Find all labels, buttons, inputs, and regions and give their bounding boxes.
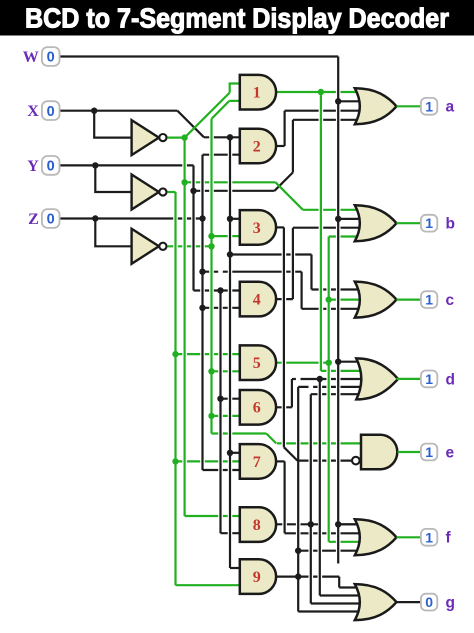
output pin f bbox=[421, 529, 437, 546]
output pin c bbox=[421, 291, 437, 308]
junction Z' bbox=[208, 243, 214, 249]
wire AND8 riser to OR-d bbox=[310, 394, 312, 524]
svg-text:5: 5 bbox=[253, 355, 261, 372]
node W to OR-a bbox=[338, 100, 363, 102]
wire X' to OR-b in1 bbox=[303, 209, 363, 211]
wire X' branch b bbox=[185, 181, 276, 183]
svg-text:0: 0 bbox=[47, 159, 55, 175]
wire Z' diagonal e bbox=[266, 434, 276, 444]
wire Y to OR-a in4 bbox=[293, 119, 363, 121]
wire Y' bus vertical bbox=[174, 192, 176, 585]
wire AND6 out bbox=[276, 406, 292, 408]
output pin a bbox=[421, 98, 437, 115]
wire output a bbox=[397, 105, 421, 107]
svg-text:g: g bbox=[446, 595, 455, 612]
svg-text:b: b bbox=[446, 216, 455, 233]
wire Y to AND8 bbox=[221, 532, 246, 534]
wire Y bus vertical bbox=[192, 165, 194, 290]
junction AND8/d riser bbox=[308, 521, 314, 527]
junction X/AND7 bbox=[227, 450, 233, 456]
wire Y' to AND9 bbox=[176, 584, 246, 586]
svg-text:7: 7 bbox=[253, 454, 261, 471]
svg-text:c: c bbox=[446, 292, 455, 309]
wire AND6 riser to OR-g bbox=[319, 379, 321, 596]
junction X/c-branch bbox=[227, 251, 233, 257]
wire Z' to AND5 bbox=[212, 370, 246, 372]
NOT gate Z inverter bbox=[132, 229, 159, 264]
wire Z' bus vertical bbox=[210, 119, 212, 434]
wire Z' diagonal AND1 bbox=[212, 101, 230, 119]
output pin b bbox=[421, 215, 437, 232]
wire Y horizontal bbox=[60, 164, 193, 166]
wire AND4 to OR-b in3 bbox=[293, 227, 363, 229]
junction W/a bbox=[335, 98, 341, 104]
svg-text:0: 0 bbox=[47, 212, 55, 228]
svg-text:0: 0 bbox=[47, 104, 55, 120]
svg-text:1: 1 bbox=[425, 292, 433, 308]
wire Z' to AND3 bbox=[212, 235, 246, 237]
junction Z bbox=[199, 215, 205, 221]
wire Z bus vertical bbox=[201, 155, 203, 470]
svg-text:BCD to 7-Segment Display Decod: BCD to 7-Segment Display Decoder bbox=[25, 3, 449, 34]
junction AND9/f branch bbox=[295, 548, 301, 554]
wire AND5 riser bbox=[328, 237, 330, 542]
wire Z to AND4 bbox=[203, 307, 246, 309]
wire W vertical bbox=[337, 57, 339, 564]
wire X' jog AND1 bbox=[230, 84, 246, 93]
wire output e bbox=[398, 451, 421, 453]
wire X' diagonal to AND1 bbox=[185, 93, 230, 138]
AND gate 9 bbox=[240, 559, 276, 594]
svg-text:a: a bbox=[446, 99, 455, 116]
wire W to OR-f in1 bbox=[338, 523, 363, 525]
input pin X bbox=[42, 101, 60, 120]
output pin e bbox=[421, 444, 437, 461]
junction Z'/AND5 bbox=[208, 368, 214, 374]
input pin Y bbox=[42, 156, 60, 175]
OR gate d bbox=[356, 358, 398, 399]
junction Z bbox=[92, 215, 98, 221]
wire AND6 to OR-g in2 bbox=[320, 594, 363, 596]
junction Z/AND4 bbox=[199, 305, 205, 311]
svg-text:1: 1 bbox=[425, 371, 433, 387]
wire Z to OR-c in3 bbox=[302, 308, 363, 310]
wire AND2 riser bbox=[284, 111, 286, 146]
AND gate 1 bbox=[240, 75, 276, 110]
wire Y riser to OR-a bbox=[292, 120, 294, 173]
node W to OR-b bbox=[338, 218, 363, 220]
svg-text:X: X bbox=[27, 103, 39, 120]
wire AND6 to OR-d in3 bbox=[292, 378, 365, 380]
wire Z to inverter bbox=[95, 219, 132, 247]
wire AND4 riser bbox=[292, 228, 294, 299]
wire Z branch c bbox=[203, 271, 302, 273]
junction X' bbox=[181, 134, 187, 140]
junction Y2 start bbox=[217, 287, 223, 293]
AND gate 2 bbox=[240, 129, 276, 164]
junction X/AND3 bbox=[227, 216, 233, 222]
wire AND7 out bbox=[276, 460, 285, 462]
svg-text:1: 1 bbox=[425, 444, 433, 460]
wire W horizontal bbox=[60, 55, 338, 57]
wire Y to inverter bbox=[95, 165, 132, 192]
wire AND5 to OR-c in2 bbox=[329, 299, 363, 301]
output pin g bbox=[421, 594, 437, 611]
node W to OR-f bbox=[338, 523, 363, 525]
wire AND3 riser bbox=[283, 227, 285, 447]
svg-text:d: d bbox=[446, 371, 455, 388]
wire Y' to AND5 bbox=[176, 353, 246, 355]
svg-text:e: e bbox=[446, 444, 455, 461]
svg-text:1: 1 bbox=[425, 215, 433, 231]
wire AND8 to OR-g in3 bbox=[311, 602, 363, 604]
junction AND6/g branch bbox=[317, 376, 323, 382]
OR gate a bbox=[355, 88, 397, 124]
svg-text:1: 1 bbox=[253, 85, 261, 102]
wire output g bbox=[397, 601, 421, 603]
wire AND9 to OR-d in4 bbox=[298, 386, 365, 388]
wire X to AND3 bbox=[230, 218, 246, 220]
wire X horizontal bbox=[60, 110, 177, 112]
junction AND5/c bbox=[326, 296, 332, 302]
wire AND6 riser bbox=[291, 379, 293, 407]
wire Z to AND7 bbox=[203, 469, 246, 471]
wire AND9 branch f bbox=[298, 550, 363, 552]
junction W/f bbox=[335, 521, 341, 527]
wire AND3 out bbox=[276, 226, 284, 228]
wire Z' jog AND1 bbox=[229, 100, 246, 102]
wire Y-inv out bbox=[168, 191, 176, 193]
svg-text:1: 1 bbox=[425, 98, 433, 114]
title bar bbox=[0, 0, 474, 36]
wire AND2 to OR-a in3 bbox=[285, 110, 363, 112]
junction Y'/AND5 bbox=[172, 351, 178, 357]
wire AND7 to OR-f in2 bbox=[285, 532, 363, 534]
AND gate 3 bbox=[240, 210, 276, 245]
wire Y to AND4 bbox=[194, 289, 246, 291]
output pin d bbox=[421, 371, 437, 388]
OR gate c bbox=[355, 282, 397, 318]
wire AND5 to OR-b in4 bbox=[329, 235, 363, 237]
wire X to AND9 bbox=[230, 567, 246, 569]
svg-text:W: W bbox=[23, 49, 39, 66]
svg-text:0: 0 bbox=[425, 594, 433, 610]
wire AND7 riser bbox=[284, 461, 286, 533]
wire X diagonal bbox=[177, 111, 204, 138]
junction W/b bbox=[335, 216, 341, 222]
svg-text:1: 1 bbox=[425, 529, 433, 545]
wire AND9 to OR-g in1 bbox=[339, 586, 363, 588]
wire AND3 diagonal bbox=[284, 447, 298, 460]
wire X riser to OR-c bbox=[310, 255, 312, 290]
input pin W bbox=[42, 47, 60, 66]
junction Z/c-branch bbox=[199, 269, 205, 275]
wire AND9 riser up bbox=[297, 387, 299, 612]
wire AND9 out bbox=[276, 575, 339, 577]
junction X'/b-branch bbox=[181, 179, 187, 185]
wire AND5 to OR-f in3 bbox=[329, 541, 363, 543]
NOT gate Y inverter bbox=[132, 175, 159, 210]
junction Y bbox=[92, 162, 98, 168]
junction AND1 out bbox=[318, 89, 324, 95]
wire AND8 riser to OR-g bbox=[310, 524, 312, 603]
wire X' to AND8 bbox=[185, 515, 246, 517]
wire X to OR-c in1 bbox=[312, 288, 363, 290]
OR gate b bbox=[355, 205, 397, 241]
svg-text:Y: Y bbox=[27, 158, 39, 175]
svg-text:8: 8 bbox=[253, 517, 261, 534]
AND gate 7 bbox=[240, 444, 276, 479]
wire output f bbox=[397, 536, 421, 538]
svg-text:3: 3 bbox=[253, 220, 261, 237]
wire AND3 to AND-e bubble bbox=[297, 460, 351, 462]
junction Z'/AND3 bbox=[208, 233, 214, 239]
wire Y to AND6 bbox=[221, 398, 246, 400]
junction X bbox=[91, 108, 97, 114]
junction Z'/AND6 bbox=[208, 413, 214, 419]
junction AND5 out bbox=[326, 360, 332, 366]
wire AND1 out bbox=[276, 91, 363, 93]
wire output b bbox=[397, 222, 421, 224]
wire Z' to AND-e upper bbox=[212, 432, 267, 434]
svg-text:9: 9 bbox=[253, 569, 261, 586]
wire X to AND2 bbox=[204, 136, 246, 138]
wire Z horizontal bbox=[60, 217, 202, 219]
wire AND4 out bbox=[276, 298, 293, 300]
AND gate 4 bbox=[240, 282, 276, 317]
wire X bus vertical bbox=[229, 137, 231, 568]
wire output d bbox=[397, 378, 421, 380]
node W to OR-d bbox=[338, 361, 365, 363]
wire AND5 out bbox=[276, 362, 329, 364]
input pin Z bbox=[42, 209, 60, 228]
wire X-inv out bbox=[168, 137, 185, 139]
wire X to inverter bbox=[94, 111, 132, 138]
wire AND2 out bbox=[276, 145, 285, 147]
wire X to AND7 bbox=[230, 452, 246, 454]
wire AND1 riser bbox=[320, 92, 322, 371]
junction AND9/riser bbox=[295, 573, 301, 579]
wire Z riser to OR-c bbox=[301, 272, 303, 309]
svg-text:0: 0 bbox=[47, 50, 55, 66]
junction W/d bbox=[335, 359, 341, 365]
OR gate g bbox=[355, 584, 397, 620]
wire Y branch a bbox=[194, 190, 275, 192]
wire X' bus vertical bbox=[184, 138, 186, 516]
svg-text:4: 4 bbox=[253, 292, 261, 309]
svg-text:6: 6 bbox=[253, 400, 261, 417]
wire Y diagonal a bbox=[275, 172, 293, 190]
wire Y lower bus bbox=[219, 291, 221, 534]
AND gate e with bubble bbox=[361, 435, 397, 470]
svg-text:2: 2 bbox=[253, 138, 261, 155]
NOT gate X inverter bbox=[132, 120, 159, 155]
wire Z-inv out bbox=[168, 245, 212, 247]
wire AND1 to OR-d in2 bbox=[321, 370, 365, 372]
junction Y/a-branch bbox=[190, 188, 196, 194]
wire AND9 jog bbox=[338, 577, 340, 588]
junction Y/AND6 bbox=[217, 396, 223, 402]
AND gate 8 bbox=[240, 507, 276, 542]
wire AND9 to OR-g in4 bbox=[298, 610, 363, 612]
wire output c bbox=[397, 299, 421, 301]
wire Z to AND2 bbox=[203, 154, 246, 156]
junction Y'/AND7 bbox=[172, 458, 178, 464]
junction X bus bbox=[227, 134, 233, 140]
svg-text:f: f bbox=[446, 530, 452, 547]
wire Y' to AND7 mid bbox=[176, 460, 246, 462]
wire X branch c bbox=[230, 253, 312, 255]
wire AND8 out bbox=[276, 523, 318, 525]
OR gate f bbox=[355, 519, 397, 555]
AND gate 5 bbox=[240, 345, 276, 380]
svg-text:Z: Z bbox=[28, 211, 39, 228]
AND gate 6 bbox=[240, 390, 276, 425]
wire Z' e upper entry bbox=[277, 442, 369, 444]
wire Z' to AND6 bbox=[212, 415, 246, 417]
wire X' diagonal b bbox=[276, 182, 303, 210]
wire AND8 to OR-d in5 bbox=[311, 393, 365, 395]
